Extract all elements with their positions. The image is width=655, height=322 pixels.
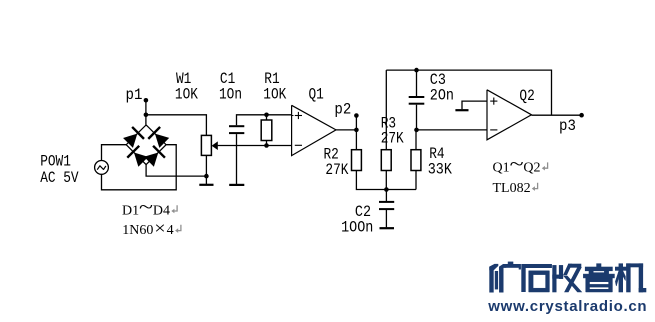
label AC 5V bbox=[40, 170, 79, 188]
diode bridge outline bbox=[126, 125, 166, 165]
svg-text:Q1: Q1 bbox=[309, 86, 324, 104]
logo char 3 shou bbox=[553, 264, 582, 292]
label C3 bbox=[430, 72, 446, 89]
wire p1 stem to bridge top bbox=[145, 100, 147, 125]
potentiometer W1 bbox=[201, 135, 217, 155]
wire C1 top to op-amp Q1 non-inverting input bbox=[237, 115, 292, 125]
wire C3 top stub bbox=[416, 70, 418, 96]
return mark 2 bbox=[175, 225, 181, 233]
junction C3 top rail bbox=[414, 68, 419, 73]
wire R3 bottom to bottom rail bbox=[385, 171, 387, 190]
junction Q1 output bbox=[354, 128, 359, 133]
junction R1 top bbox=[264, 113, 269, 118]
return mark 1 bbox=[171, 205, 177, 213]
label W1 bbox=[176, 71, 191, 89]
svg-text:TL082: TL082 bbox=[493, 181, 531, 196]
diode D2 (upper-right, right to top) bbox=[148, 127, 169, 148]
diode D3 (lower-left, bottom to left) bbox=[127, 146, 148, 167]
svg-text:1N60: 1N60 bbox=[122, 223, 153, 238]
svg-text:33K: 33K bbox=[428, 161, 452, 178]
svg-text:Q2: Q2 bbox=[519, 88, 534, 106]
ground at C2 bbox=[380, 227, 395, 229]
wire C1 bottom to ground bbox=[236, 134, 238, 184]
svg-text:1OOn: 1OOn bbox=[341, 220, 373, 237]
resistor R3 bbox=[381, 150, 391, 171]
label R1 bbox=[264, 71, 279, 89]
svg-text:AC 5V: AC 5V bbox=[40, 170, 79, 188]
return mark 4 bbox=[532, 183, 538, 191]
wire R4 top stub bbox=[415, 130, 417, 150]
junction R1 bottom bbox=[264, 143, 269, 148]
op-amp Q2 bbox=[487, 90, 532, 140]
wire AC source top to bridge left vertex bbox=[102, 145, 127, 161]
wire R1 top stub bbox=[266, 115, 268, 120]
junction C3 bottom minus node bbox=[414, 128, 419, 133]
label Q1~Q2 bbox=[493, 154, 541, 176]
logo char 1 kuang bbox=[490, 262, 521, 292]
logo char 5 ji bbox=[615, 264, 646, 292]
resistor R1 bbox=[261, 120, 272, 141]
label R3 bbox=[381, 115, 396, 133]
wire R4 bottom stub bbox=[415, 171, 417, 190]
resistor R2 bbox=[352, 150, 362, 171]
svg-text:4: 4 bbox=[167, 223, 174, 238]
wire Q1 output to node p2 bbox=[336, 129, 356, 131]
label TL082 bbox=[493, 181, 531, 196]
capacitor C2 bbox=[379, 202, 394, 209]
node p2 bbox=[354, 113, 359, 118]
label C3 value 20n bbox=[430, 88, 454, 105]
label R1 value 10K bbox=[263, 86, 286, 104]
ground at C1 bbox=[229, 184, 244, 186]
op-amp Q1 bbox=[292, 105, 336, 155]
wire op-amp Q2 non-inverting input to ground bbox=[462, 101, 487, 109]
svg-text:Q1: Q1 bbox=[493, 161, 510, 176]
wire potentiometer bottom to ground junction bbox=[205, 155, 207, 176]
label R4 bbox=[429, 146, 444, 164]
svg-text:2On: 2On bbox=[430, 88, 454, 105]
wire feedback top rail bbox=[386, 70, 551, 115]
junction bottom rail C2 bbox=[384, 187, 389, 192]
svg-text:~: ~ bbox=[510, 154, 524, 175]
svg-text:×: × bbox=[154, 219, 165, 239]
wire node p2 stem bbox=[355, 116, 357, 130]
svg-text:27K: 27K bbox=[381, 130, 404, 148]
label R2 bbox=[324, 146, 339, 164]
svg-text:POW1: POW1 bbox=[40, 153, 71, 171]
node p3 bbox=[579, 113, 584, 118]
label C1 bbox=[220, 71, 235, 89]
label C2 bbox=[355, 204, 371, 221]
label C2 value 100n bbox=[341, 220, 373, 237]
svg-text:D1: D1 bbox=[122, 203, 139, 218]
label 1N60x4 bbox=[122, 219, 173, 239]
svg-text:1On: 1On bbox=[219, 86, 242, 104]
label R2 value 27K bbox=[325, 162, 348, 180]
label W1 value 10K bbox=[175, 86, 198, 104]
return mark 3 bbox=[542, 162, 548, 170]
svg-text:C2: C2 bbox=[355, 204, 371, 221]
svg-text:www.crystalradio.cn: www.crystalradio.cn bbox=[487, 298, 647, 315]
AC source POW1 bbox=[95, 161, 109, 175]
logo url www.crystalradio.cn bbox=[487, 298, 647, 315]
svg-text:1OK: 1OK bbox=[263, 86, 286, 104]
label POW1 bbox=[40, 153, 71, 171]
wire R1 bottom stub bbox=[266, 141, 268, 146]
wire bottom rail to C2 bbox=[385, 190, 387, 202]
logo char 2 shi bbox=[522, 264, 552, 292]
wire R3 top to feedback rail bbox=[385, 70, 387, 150]
label Q2 bbox=[519, 88, 534, 106]
label R4 value 33K bbox=[428, 161, 452, 178]
label R3 value 27K bbox=[381, 130, 404, 148]
capacitor C3 bbox=[409, 97, 425, 104]
wire top rail p1 to potentiometer W1 bbox=[146, 115, 207, 136]
wire Q2 output to node p3 bbox=[532, 114, 582, 116]
label C1 value 10n bbox=[219, 86, 242, 104]
node p1 bbox=[144, 98, 149, 103]
diode D1 (upper-left, left to top) bbox=[123, 127, 144, 148]
label Q1 bbox=[309, 86, 324, 104]
junction p1 rail bbox=[144, 113, 149, 118]
wire wiper to op-amp Q1 inverting input bbox=[218, 145, 292, 147]
wire C2 bottom to ground bbox=[385, 210, 387, 227]
label p3 bbox=[559, 116, 576, 135]
label D1~D4 bbox=[122, 196, 170, 218]
wire minus node to op-amp Q2 inverting input bbox=[417, 129, 488, 131]
label p2 bbox=[334, 100, 351, 119]
wire C3 bottom to minus node bbox=[416, 105, 418, 130]
wire p2 junction down to R2 bbox=[355, 130, 357, 150]
wire AC source bottom loop to bridge right vertex bbox=[102, 145, 177, 190]
wire bridge bottom vertex to ground junction bbox=[146, 165, 206, 177]
junction pot ground bbox=[204, 174, 209, 179]
svg-text:27K: 27K bbox=[325, 162, 348, 180]
svg-text:1OK: 1OK bbox=[175, 86, 198, 104]
diode D4 (lower-right, bottom to right) bbox=[144, 146, 165, 167]
logo char 4 yin bbox=[583, 264, 614, 292]
capacitor C1 bbox=[229, 126, 244, 133]
ground at potentiometer bbox=[199, 176, 213, 185]
svg-text:~: ~ bbox=[139, 196, 153, 217]
label p1 bbox=[126, 85, 143, 104]
svg-text:p2: p2 bbox=[334, 100, 351, 119]
svg-text:p1: p1 bbox=[126, 85, 143, 104]
svg-text:Q2: Q2 bbox=[523, 161, 540, 176]
svg-text:D4: D4 bbox=[153, 203, 170, 218]
resistor R4 bbox=[411, 150, 421, 171]
ground at Q2 non-inverting input bbox=[455, 109, 468, 111]
svg-text:p3: p3 bbox=[559, 116, 576, 135]
wire R2 bottom to bottom rail bbox=[356, 171, 416, 190]
